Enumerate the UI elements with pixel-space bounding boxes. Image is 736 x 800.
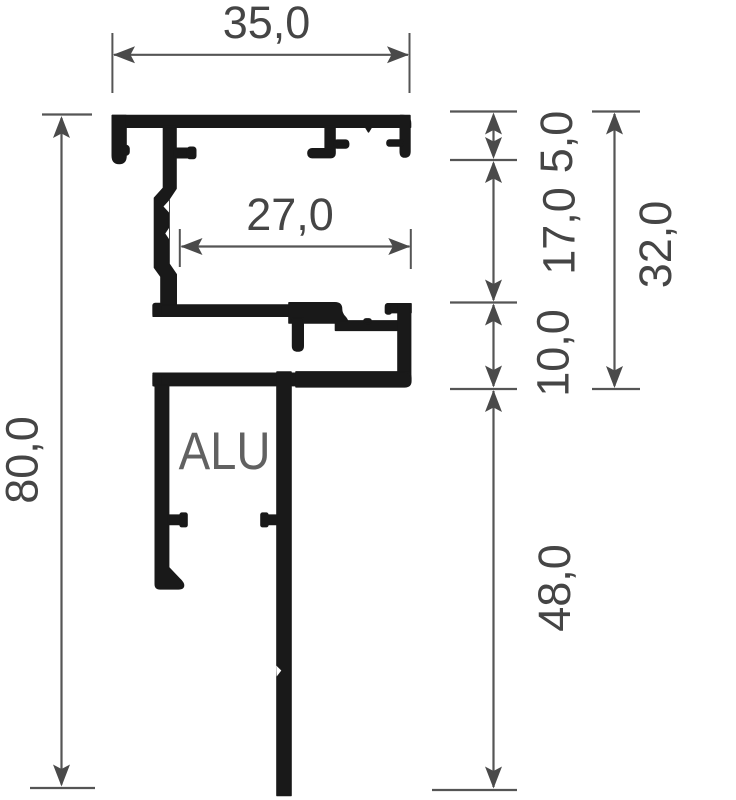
- dim 32.0 line: [613, 114, 615, 386]
- dim 35.0 arrow left: [113, 46, 135, 63]
- bottom stem tab: [262, 515, 278, 524]
- svg-text:ALU: ALU: [179, 422, 271, 481]
- dim 17.0 arrow down: [485, 280, 502, 302]
- dim 35.0 extension line right: [409, 33, 411, 93]
- top bar small nub: [366, 127, 372, 132]
- right chain tick 3: [450, 301, 517, 303]
- dim 32.0 arrow up: [606, 113, 623, 135]
- dim 27.0 extension line left: [179, 229, 181, 267]
- wall tab: [174, 148, 190, 157]
- svg-text:35,0: 35,0: [223, 0, 311, 48]
- svg-text:48,0: 48,0: [529, 544, 580, 632]
- dim 48.0 arrow up: [485, 390, 502, 412]
- lower left wall: [155, 385, 183, 589]
- dim 35.0 line: [114, 54, 408, 56]
- svg-text:32,0: 32,0: [630, 201, 681, 289]
- dim 27.0 arrow left: [181, 238, 203, 255]
- dim 80.0 tick top: [42, 113, 92, 115]
- F-piece stem: [325, 127, 335, 152]
- dim 80.0 arrow down: [53, 765, 70, 787]
- dim 17.0 line: [492, 163, 494, 300]
- right retainer block: [400, 116, 410, 158]
- dim 80.0 line: [60, 118, 62, 785]
- dim 48.0 line: [492, 391, 494, 787]
- profile left wall upper with jog: [155, 127, 177, 306]
- right chain tick 1: [450, 110, 517, 112]
- svg-text:10,0: 10,0: [528, 309, 579, 397]
- dim 27.0 line: [182, 245, 410, 247]
- dim 5.0 arrow up: [485, 113, 502, 135]
- profile top bar: [112, 116, 410, 128]
- dim 10.0 arrow down: [485, 366, 502, 388]
- dim 80.0 arrow up: [53, 116, 70, 138]
- dim 27.0 arrow right: [388, 238, 410, 255]
- bottom stem tab tip: [261, 513, 268, 526]
- dim 10.0 line: [492, 305, 494, 386]
- middle stem: [293, 318, 304, 351]
- dim 17.0 arrow up: [485, 161, 502, 183]
- lower wall tab: [168, 515, 184, 524]
- right retainer barb: [387, 140, 403, 146]
- dim 32.0 tick bottom: [592, 388, 640, 390]
- lower wall tab tip: [180, 513, 187, 526]
- dim 35.0 arrow right: [387, 46, 409, 63]
- F-piece foot: [308, 149, 335, 158]
- bottom bar left junction bump: [153, 373, 162, 386]
- dim 48.0 arrow down: [485, 767, 502, 789]
- F-piece right nub: [334, 140, 349, 148]
- dim 35.0 extension line left: [111, 33, 113, 93]
- right chain tick 4: [450, 388, 517, 390]
- wall tab tip: [188, 147, 196, 158]
- middle bar thin: [153, 305, 290, 316]
- profile left hook: [112, 116, 126, 164]
- wall jog notch 2: [165, 228, 169, 239]
- middle right lip left end: [386, 304, 392, 314]
- dim 80.0 tick bottom: [30, 787, 95, 789]
- dim 32.0 arrow down: [606, 366, 623, 388]
- right chain tick 2: [450, 159, 517, 161]
- bottom bar thin: [153, 373, 298, 385]
- dim 5.0 arrow down: [485, 137, 502, 159]
- dim 48.0 bottom tick: [432, 789, 517, 791]
- middle block body: [289, 303, 348, 323]
- wall jog notch 1: [164, 201, 170, 213]
- middle bar left junction bump: [153, 304, 162, 317]
- svg-text:80,0: 80,0: [0, 416, 47, 504]
- dim 32.0 tick top: [592, 110, 640, 112]
- profile left hook nub: [121, 146, 129, 156]
- bottom stem: [277, 372, 291, 796]
- svg-text:5,0: 5,0: [531, 111, 582, 174]
- middle right lip: [386, 304, 411, 313]
- dim 27.0 extension line right: [410, 229, 412, 269]
- svg-text:17,0: 17,0: [534, 187, 585, 275]
- bottom bar thick: [296, 372, 411, 387]
- dim 5.0 line: [492, 116, 494, 156]
- dim 10.0 arrow up: [485, 304, 502, 326]
- middle bar bump: [364, 319, 371, 324]
- svg-text:27,0: 27,0: [246, 189, 334, 240]
- middle lower bar: [336, 321, 401, 330]
- middle right wall: [398, 304, 411, 387]
- bottom stem nick: [276, 666, 281, 677]
